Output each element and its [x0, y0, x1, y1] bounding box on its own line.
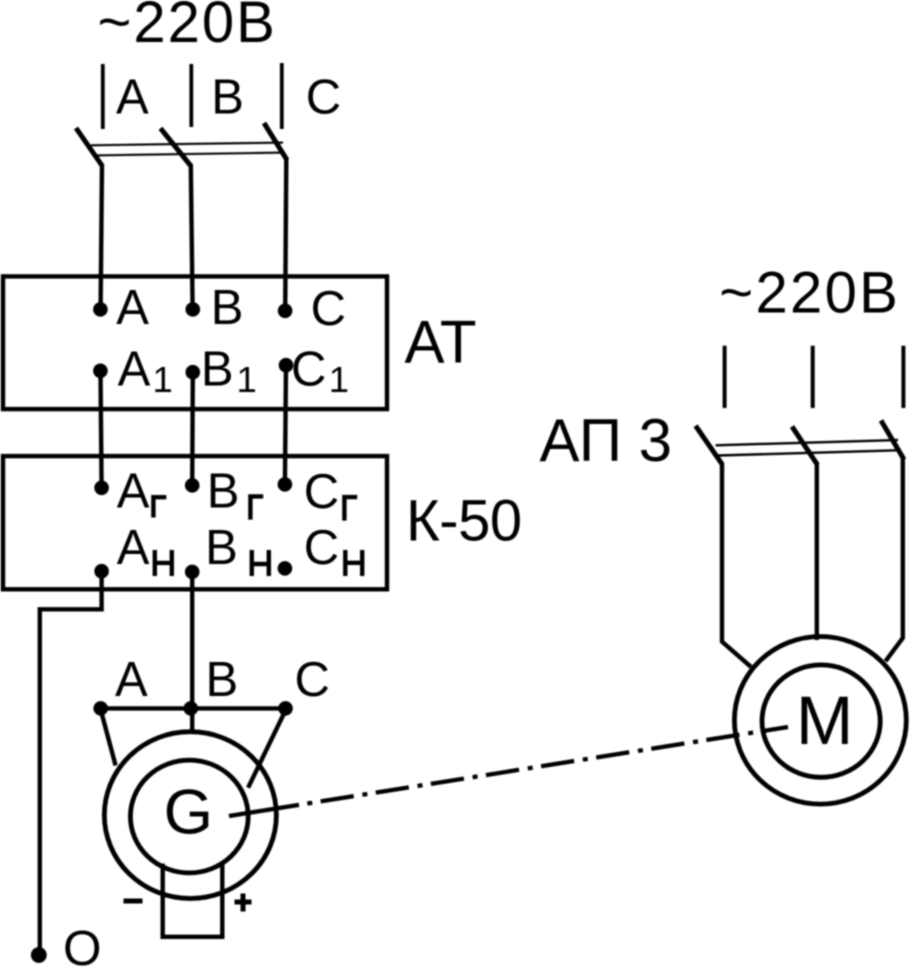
svg-text:1: 1 — [237, 359, 257, 400]
svg-text:С: С — [304, 465, 339, 519]
svg-text:1: 1 — [153, 359, 173, 400]
svg-text:С: С — [291, 342, 326, 396]
svg-text:G: G — [164, 778, 213, 848]
svg-text:А: А — [116, 281, 149, 335]
svg-text:С: С — [306, 70, 341, 124]
svg-text:1: 1 — [329, 359, 349, 400]
svg-text:~220В: ~220В — [719, 260, 900, 325]
svg-text:В: В — [211, 70, 244, 124]
svg-text:А: А — [117, 465, 150, 519]
svg-text:В: В — [201, 342, 234, 396]
svg-text:С: С — [295, 653, 330, 707]
svg-text:С: С — [311, 282, 346, 336]
svg-text:В: В — [206, 653, 239, 707]
svg-text:В: В — [211, 281, 244, 335]
svg-text:В: В — [207, 465, 240, 519]
svg-text:К-50: К-50 — [406, 489, 522, 554]
svg-text:А: А — [115, 653, 148, 707]
svg-text:АТ: АТ — [405, 309, 477, 376]
svg-text:А: А — [118, 342, 151, 396]
svg-text:АП 3: АП 3 — [540, 407, 673, 474]
svg-text:А: А — [117, 521, 150, 575]
svg-text:О: О — [63, 921, 102, 967]
svg-text:~220В: ~220В — [98, 0, 277, 55]
svg-text:С: С — [304, 521, 339, 575]
svg-text:В: В — [205, 521, 238, 575]
svg-text:А: А — [116, 70, 149, 124]
svg-text:М: М — [796, 682, 853, 759]
